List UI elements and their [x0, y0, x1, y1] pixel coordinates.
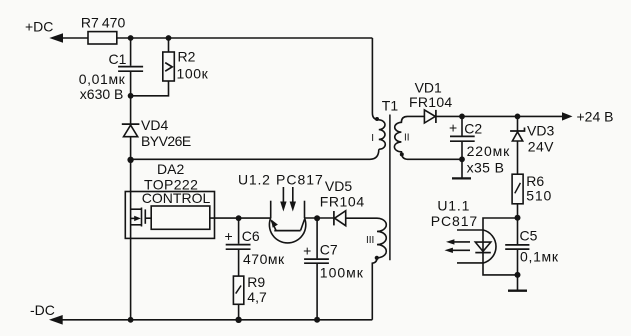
wire C1 lower lead [130, 72, 132, 96]
svg-text:U1.1: U1.1 [437, 198, 470, 214]
node +24V terminal arrow [562, 112, 573, 120]
node junction C1-R2 [128, 93, 134, 99]
ground U1.1 [508, 290, 527, 292]
transformer T1 winding III dot [375, 256, 379, 260]
node junction bottom-left [128, 317, 134, 323]
svg-text:4,7: 4,7 [247, 289, 267, 305]
node +DC terminal arrow [49, 33, 88, 43]
svg-text:C5: C5 [520, 227, 538, 243]
transformer T1 core [389, 115, 391, 261]
svg-text:U1.2: U1.2 [238, 172, 271, 188]
svg-text:BYV26E: BYV26E [141, 133, 191, 149]
IC DA2 TOP222 body [125, 192, 214, 239]
svg-text:+24 В: +24 В [577, 109, 614, 125]
wire R2 upper lead [168, 38, 170, 52]
svg-text:PC817: PC817 [276, 172, 324, 188]
wire winding II to VD1 [408, 115, 425, 117]
transformer T1 winding II dot [400, 152, 404, 156]
wire ground lead [517, 275, 519, 290]
wire C7 lower lead [316, 264, 318, 320]
wire U1.1 cathode stub [457, 262, 483, 264]
IC DA2 CONTROL block [151, 206, 210, 229]
svg-text:x35 В: x35 В [467, 160, 505, 176]
svg-text:x630 В: x630 В [80, 86, 124, 102]
wire R6 lower lead [517, 204, 519, 218]
wire primary top lead [372, 38, 378, 120]
node junction C7-top [314, 215, 320, 221]
capacitor C2 [450, 136, 475, 141]
wire C5 upper lead [517, 218, 519, 244]
svg-text:510: 510 [526, 188, 552, 204]
resistor R7 [88, 32, 117, 44]
svg-text:0,1мк: 0,1мк [520, 249, 559, 265]
optocoupler U1.2 light arrow 1 [280, 187, 286, 212]
transformer T1 winding III [372, 218, 386, 320]
diode VD5 [334, 211, 346, 226]
svg-text:CONTROL: CONTROL [142, 190, 211, 206]
wire C2 lower lead [461, 142, 463, 178]
resistor R9 slash mark [236, 286, 241, 294]
svg-text:24V: 24V [528, 139, 554, 155]
transformer T1 winding I [379, 120, 386, 150]
wire R9 lower lead [238, 304, 240, 320]
wire C7 upper lead [316, 218, 318, 258]
capacitor C1 [118, 67, 143, 72]
svg-text:+: + [449, 120, 457, 136]
transistor DA2 internal MOSFET [131, 208, 152, 227]
svg-text:C6: C6 [242, 228, 260, 244]
svg-text:C7: C7 [320, 242, 338, 258]
svg-text:C1: C1 [109, 51, 127, 67]
wire top rail [117, 37, 373, 39]
svg-text:I: I [371, 133, 374, 144]
resistor R2 [163, 52, 175, 81]
node junction R2-top [166, 35, 172, 41]
node -DC terminal arrow [49, 315, 372, 325]
capacitor C6 [226, 245, 251, 250]
diode VD1 [424, 110, 436, 123]
svg-text:100мк: 100мк [320, 265, 364, 281]
transformer T1 winding II [394, 116, 407, 159]
node junction C7-bottom [314, 317, 320, 323]
svg-text:R9: R9 [247, 274, 265, 290]
node junction VD3-top [515, 114, 521, 120]
svg-text:220мк: 220мк [467, 143, 511, 159]
svg-text:FR104: FR104 [320, 194, 365, 210]
node junction U1.1-top [515, 215, 521, 221]
wire R2 lower lead [131, 81, 169, 96]
resistor R6 [512, 174, 523, 204]
svg-text:+DC: +DC [25, 19, 53, 35]
wire C5 lower lead [517, 250, 519, 275]
optocoupler U1.2 phototransistor [269, 201, 305, 243]
optocoupler U1.1 light arrow 1 [446, 239, 470, 244]
svg-text:+: + [225, 228, 233, 244]
svg-text:T1: T1 [382, 98, 399, 114]
wire C2 upper lead [461, 116, 463, 135]
wire C6 upper lead [238, 218, 240, 244]
wire VD5 to winding III [346, 217, 377, 219]
svg-text:0,01мк: 0,01мк [79, 71, 126, 87]
node junction drain-rail [127, 157, 133, 163]
node junction C2-winding II [459, 156, 465, 162]
node junction R9-bottom [235, 317, 241, 323]
resistor R6 slash mark [515, 183, 521, 193]
svg-text:VD4: VD4 [141, 117, 168, 133]
optocoupler U1.2 light arrow 2 [290, 187, 296, 212]
wire control to C6 node [210, 217, 271, 219]
svg-text:+: + [303, 242, 311, 258]
diode VD3 zener [510, 116, 524, 174]
wire VD4 anode lead [130, 137, 132, 160]
svg-text:PC817: PC817 [431, 213, 478, 229]
wire +24V rail [436, 115, 564, 117]
transformer T1 winding I dot [375, 117, 379, 121]
svg-text:-DC: -DC [30, 302, 55, 318]
svg-text:III: III [366, 235, 374, 246]
diode U1.1 led [475, 242, 491, 253]
wire U1.1 anode stub [457, 229, 483, 231]
node junction C1-top [128, 35, 134, 41]
svg-text:C2: C2 [464, 121, 482, 137]
capacitor C7 [304, 259, 329, 263]
wire C6 to R9 [238, 250, 240, 276]
wire left vertical bus [130, 160, 132, 320]
resistor R2 chevron mark [165, 63, 172, 72]
wire VD4 cathode lead [130, 96, 132, 124]
svg-text:470: 470 [102, 15, 126, 31]
capacitor C5 [505, 245, 529, 249]
svg-text:VD5: VD5 [325, 178, 352, 194]
node junction C6-top [236, 215, 242, 221]
svg-text:R7: R7 [81, 15, 99, 31]
svg-text:100к: 100к [177, 65, 209, 81]
svg-text:II: II [404, 133, 410, 144]
svg-text:DA2: DA2 [157, 161, 184, 177]
wire winding II bottom to C2 [408, 158, 463, 160]
ground C2 [452, 177, 471, 179]
svg-text:FR104: FR104 [409, 94, 453, 110]
optocoupler U1.1 led frame [483, 218, 518, 275]
diode VD4 [122, 124, 140, 137]
svg-text:VD3: VD3 [527, 123, 554, 139]
node junction C2-top [459, 114, 465, 120]
wire U1.2 to VD5 [305, 217, 334, 219]
wire drain rail to transformer [131, 149, 379, 159]
svg-text:R2: R2 [178, 49, 196, 65]
resistor R9 [233, 276, 243, 304]
optocoupler U1.1 light arrow 2 [445, 248, 471, 253]
wire C1 upper lead [130, 38, 132, 66]
svg-text:470мк: 470мк [243, 251, 285, 267]
node junction U1.1-bottom [515, 272, 521, 278]
